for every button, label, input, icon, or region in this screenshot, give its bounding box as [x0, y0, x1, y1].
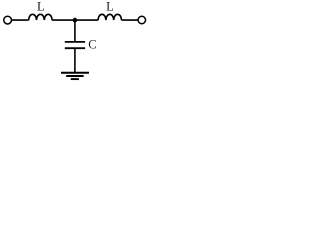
right terminal circle: [138, 16, 146, 24]
capacitor C top plate: [65, 41, 85, 43]
wire: [122, 19, 139, 21]
svg-text:L: L: [106, 0, 114, 13]
ground bar 3: [71, 78, 79, 80]
inductor L2: [98, 14, 121, 20]
wire: [12, 19, 29, 21]
wire (capacitor to ground): [74, 48, 76, 72]
left terminal circle: [4, 16, 12, 24]
node junction dot: [73, 18, 78, 23]
svg-text:C: C: [88, 38, 96, 52]
inductor L1: [29, 14, 52, 20]
svg-text:L: L: [37, 0, 45, 13]
wire (vertical, node to capacitor): [74, 20, 76, 42]
ground bar 1: [61, 72, 89, 74]
capacitor C bottom plate: [65, 47, 85, 49]
ground bar 2: [66, 75, 83, 77]
wire: [52, 19, 98, 21]
